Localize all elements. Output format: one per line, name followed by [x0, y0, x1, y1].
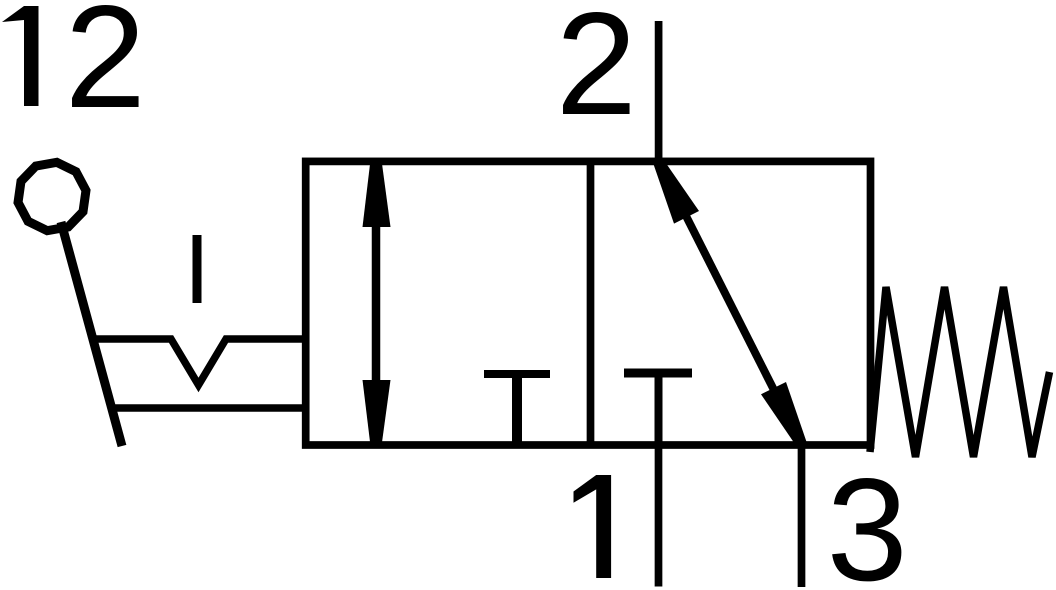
- svg-text:3: 3: [827, 448, 908, 590]
- lever arm: [61, 222, 122, 446]
- port label 1: [574, 475, 612, 578]
- actuator lower link: [111, 404, 309, 412]
- port label 12: [2, 6, 39, 106]
- wire port 1 line: [655, 441, 663, 587]
- blocked port T symbol (left box): [484, 374, 550, 445]
- lever knob (polygon circle): [18, 162, 86, 230]
- svg-text:2: 2: [65, 0, 146, 138]
- return spring: [870, 286, 1050, 458]
- flow path vertical double arrow (left position): [363, 160, 391, 446]
- flow path diagonal double arrow 2-3 (right position): [654, 160, 807, 447]
- wire port 2 line: [655, 21, 663, 165]
- wire port 3 line: [798, 441, 806, 587]
- actuator upper link with detent notch: [91, 339, 310, 385]
- svg-text:2: 2: [556, 0, 637, 145]
- position separator line: [587, 161, 595, 445]
- detent mark: [193, 235, 202, 303]
- valve body (two position boxes): [306, 161, 871, 445]
- blocked port T symbol (right box): [624, 373, 692, 445]
